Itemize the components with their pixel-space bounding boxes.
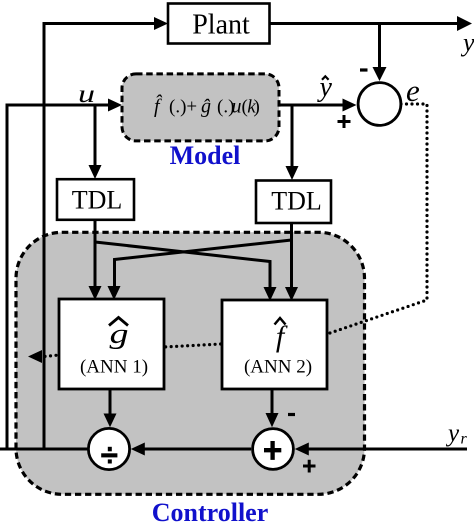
plus symbol inside summer2 — [264, 441, 281, 460]
wire ANN1 output to divider — [109, 389, 112, 415]
hat of ghat — [109, 318, 128, 326]
arrowhead into TDL2 — [286, 166, 299, 180]
wire ANN2 output to summer2 — [271, 389, 274, 414]
wire plant input (from u net up and right) — [44, 24, 156, 450]
wire TDL2 output to ANN2 — [290, 223, 293, 288]
dotted error feedback line — [44, 104, 427, 357]
svg-text:Model: Model — [170, 141, 241, 170]
wire model output yhat — [279, 104, 344, 107]
wire y down to error summer — [378, 24, 381, 69]
arrowhead into ANN1 right input — [108, 286, 121, 300]
arrowhead into ANN2 right input — [285, 287, 298, 301]
svg-text:y: y — [445, 420, 460, 447]
svg-text:r: r — [461, 431, 468, 448]
arrowhead of dotted error line — [28, 350, 42, 363]
ANN1 block ghat — [59, 299, 164, 389]
arrowhead into divider top — [104, 414, 117, 428]
svg-text:Controller: Controller — [152, 498, 269, 523]
ANN2 block fhat — [222, 300, 327, 389]
svg-text:u: u — [78, 81, 95, 108]
arrowhead into divider right — [131, 443, 145, 456]
TDL2 block — [256, 181, 331, 224]
svg-text:TDL: TDL — [72, 186, 123, 215]
arrowhead into summer2 top — [266, 413, 279, 427]
svg-text:f̂(.)+ĝ(.)u(k): f̂(.)+ĝ(.)u(k) — [154, 93, 260, 117]
svg-text:Plant: Plant — [192, 10, 250, 41]
wire yr reference input — [298, 448, 467, 451]
svg-text:(ANN 1): (ANN 1) — [80, 357, 148, 378]
hat of fhat — [275, 318, 286, 325]
arrowhead into ANN1 left input — [89, 286, 102, 300]
wire yhat branch down to TDL2 — [291, 105, 294, 168]
controller block background — [16, 232, 365, 494]
wire TDL1 output to ANN1 — [94, 220, 97, 288]
wire u feedback loop (divider output to u line) — [0, 105, 110, 449]
arrowhead into summer top — [373, 67, 387, 81]
arrowhead into TDL1 — [89, 165, 102, 179]
wire summer2 output to divider — [134, 448, 251, 451]
wire TDL1 cross branch to ANN2 — [95, 242, 270, 288]
arrowhead y output — [457, 16, 472, 31]
wire TDL2 cross branch to ANN1 — [115, 240, 292, 288]
minus sign at summer2 — [288, 413, 295, 416]
wire u branch down to TDL1 — [94, 105, 97, 167]
arrowhead into plant — [154, 17, 168, 30]
plus sign at summer — [338, 115, 351, 128]
model block — [122, 74, 279, 141]
plant block — [168, 4, 270, 44]
arrowhead into model — [108, 99, 122, 112]
minus sign at summer — [360, 68, 368, 71]
error summer circle — [358, 83, 401, 126]
svg-text:TDL: TDL — [271, 187, 322, 216]
arrowhead into summer left — [343, 99, 357, 112]
hat of yhat — [322, 76, 329, 80]
svg-text:y: y — [460, 28, 474, 57]
divider circle — [88, 428, 129, 469]
plus sign at summer2 — [303, 460, 316, 473]
wire plant output to y — [270, 22, 459, 25]
svg-text:(ANN 2): (ANN 2) — [244, 357, 312, 378]
TDL1 block — [57, 179, 134, 220]
divide symbol inside divider — [101, 453, 117, 457]
arrowhead into summer2 right — [295, 443, 309, 456]
arrowhead into ANN2 left input — [264, 287, 277, 301]
summer2 circle — [253, 429, 294, 470]
